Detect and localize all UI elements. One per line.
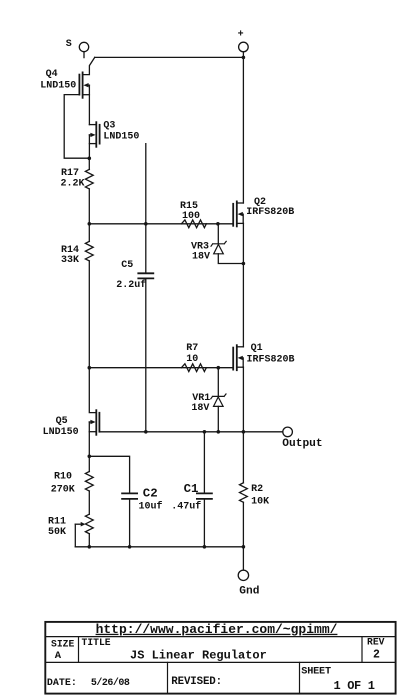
transistor Q5 LND150 <box>43 410 100 438</box>
wire gate net of Q1 (R7 row) <box>89 367 233 369</box>
svg-text:100: 100 <box>182 211 200 222</box>
wire Q5 source down to R10 <box>88 422 90 456</box>
node VR3 return on right rail <box>242 262 246 266</box>
transistor Q4 LND150 <box>40 69 89 98</box>
svg-text:33K: 33K <box>61 255 79 266</box>
url text <box>96 622 338 637</box>
svg-text:2: 2 <box>373 649 380 662</box>
svg-text:50K: 50K <box>48 527 66 538</box>
node ground rail / R2 junction <box>242 545 246 549</box>
svg-text:2.2K: 2.2K <box>61 178 85 189</box>
node C1 on bottom rail <box>203 545 207 549</box>
transistor Q1 IRFS820B <box>233 343 294 370</box>
svg-text:18V: 18V <box>192 252 210 263</box>
title cell <box>82 637 267 662</box>
zener diode VR1 18V <box>191 368 226 432</box>
svg-text:LND150: LND150 <box>40 81 76 92</box>
title block column dividers <box>79 637 363 694</box>
wire bottom rail (ground net) <box>75 546 243 548</box>
revised cell <box>171 676 222 688</box>
title block outer border <box>45 622 395 694</box>
svg-text:.47uf: .47uf <box>171 500 201 512</box>
terminal + (supply) <box>238 30 249 58</box>
svg-text:R2: R2 <box>251 484 263 495</box>
svg-text:IRFS820B: IRFS820B <box>246 207 294 218</box>
potentiometer R11 50K <box>48 514 93 547</box>
svg-text:SHEET: SHEET <box>301 667 331 678</box>
node R17/R14 junction <box>88 222 92 226</box>
node C5 tap on R15 net <box>144 222 148 226</box>
wire output net <box>99 431 282 433</box>
transistor Q2 IRFS820B <box>233 197 294 226</box>
node R7 tap on left rail <box>88 366 92 370</box>
svg-text:C1: C1 <box>184 482 199 496</box>
node Q1 gate / VR1 junction <box>217 366 221 370</box>
svg-text:R7: R7 <box>186 343 198 354</box>
wire top rail from S to + <box>95 56 244 58</box>
svg-text:10K: 10K <box>251 496 269 507</box>
date cell <box>47 677 130 689</box>
svg-text:REVISED:: REVISED: <box>171 676 222 688</box>
svg-text:1 OF 1: 1 OF 1 <box>334 679 375 693</box>
node top-right junction <box>242 56 246 60</box>
svg-text:SIZE: SIZE <box>51 639 74 650</box>
resistor R2 10K <box>240 432 270 547</box>
svg-text:Q4: Q4 <box>46 69 58 80</box>
svg-text:A: A <box>55 650 62 662</box>
svg-text:TITLE: TITLE <box>82 637 111 648</box>
svg-text:C2: C2 <box>143 486 158 500</box>
capacitor C5 2.2uf <box>116 144 153 432</box>
svg-text:R15: R15 <box>180 201 198 212</box>
wire Q4 source down to Q3 drain <box>88 85 90 124</box>
svg-text:S: S <box>66 39 72 50</box>
terminal S (input) <box>66 39 89 57</box>
resistor R7 10 <box>181 343 206 371</box>
node C2 tap at Q5 source <box>88 455 92 459</box>
wire Q4 drain to top rail <box>83 57 95 74</box>
svg-text:R17: R17 <box>61 168 79 179</box>
resistor R14 33K <box>61 224 93 368</box>
svg-text:LND150: LND150 <box>43 427 79 438</box>
svg-text:C5: C5 <box>121 260 133 271</box>
svg-text:IRFS820B: IRFS820B <box>247 354 295 365</box>
wire right rail Q2 source to Q1 drain <box>242 223 244 346</box>
svg-text:LND150: LND150 <box>103 132 139 143</box>
wire gate net of Q2 (R15 row) <box>89 223 233 225</box>
node VR1 on output net <box>217 430 221 434</box>
svg-text:R11: R11 <box>48 516 66 527</box>
size cell <box>51 639 74 663</box>
wire left rail down to Q5 drain <box>89 368 96 413</box>
node C2 on bottom rail <box>128 545 132 549</box>
capacitor C1 .47uf <box>171 432 212 547</box>
svg-text:REV: REV <box>367 636 385 647</box>
svg-text:+: + <box>238 30 244 41</box>
node Q2 gate / VR3 junction <box>216 222 220 226</box>
resistor R10 270K <box>51 456 93 514</box>
svg-text:R10: R10 <box>54 471 72 482</box>
svg-text:Output: Output <box>282 438 322 450</box>
zener diode VR3 18V <box>191 224 243 264</box>
svg-text:http://www.pacifier.com/~gpimm: http://www.pacifier.com/~gpimm/ <box>96 622 338 637</box>
svg-text:10uf: 10uf <box>139 500 163 512</box>
title block row dividers <box>45 637 395 663</box>
capacitor C2 10uf <box>89 456 162 547</box>
svg-text:270K: 270K <box>51 484 75 495</box>
svg-text:18V: 18V <box>191 403 209 414</box>
resistor R17 2.2K <box>61 158 94 224</box>
node C1 on output net <box>203 430 207 434</box>
svg-text:JS Linear Regulator: JS Linear Regulator <box>130 648 267 662</box>
svg-text:VR1: VR1 <box>192 393 210 404</box>
svg-text:Q5: Q5 <box>56 416 68 427</box>
rev cell <box>367 636 385 661</box>
terminal Output <box>282 427 322 450</box>
svg-text:Q3: Q3 <box>103 120 115 131</box>
node R17 top junction <box>88 157 92 161</box>
terminal Gnd <box>238 547 259 598</box>
wire right rail Q1 source to output net <box>242 367 244 432</box>
wire right rail top segment <box>242 57 244 203</box>
wire Q3 source down to node <box>88 135 90 158</box>
svg-text:Gnd: Gnd <box>239 586 259 598</box>
sheet cell <box>301 667 374 693</box>
node C5 on output net <box>144 430 148 434</box>
svg-text:2.2uf: 2.2uf <box>116 279 146 291</box>
svg-text:10: 10 <box>186 354 198 365</box>
wire Q4 gate loop left <box>64 95 89 159</box>
transistor Q3 LND150 <box>89 120 139 147</box>
node R11 bottom junction <box>88 545 92 549</box>
svg-text:5/26/08: 5/26/08 <box>91 677 130 689</box>
resistor R15 100 <box>180 201 206 228</box>
svg-text:Q1: Q1 <box>251 343 263 354</box>
svg-text:DATE:: DATE: <box>47 678 77 689</box>
node right rail on output net <box>242 430 246 434</box>
